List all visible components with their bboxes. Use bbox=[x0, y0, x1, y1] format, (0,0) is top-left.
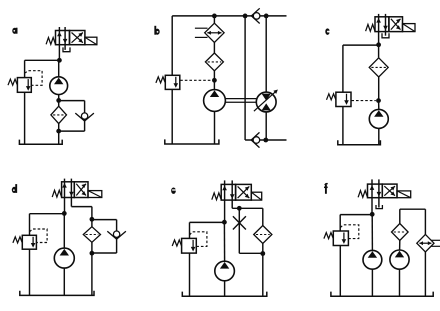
wire a: relief to tank bbox=[24, 92, 26, 144]
label e bbox=[171, 188, 176, 194]
wire b: relief to tank bbox=[171, 89, 173, 144]
node c: pilot junction bbox=[376, 98, 381, 103]
node a: filter outlet junction bbox=[56, 129, 61, 134]
wire a: pump to filter junction bbox=[58, 95, 60, 101]
valve f: crossed arrows bbox=[384, 186, 395, 196]
wire f: relief to tank bbox=[339, 246, 341, 297]
valve a: B-T flow line with down arrow bbox=[64, 27, 66, 45]
wire a: to tank bbox=[58, 131, 60, 144]
relief valve f: spring bbox=[324, 233, 333, 239]
node d: filter inlet junction bbox=[90, 217, 95, 222]
valve c: solenoid actuator bbox=[403, 24, 416, 32]
node b: rail check right bbox=[264, 14, 269, 19]
valve c: B-T flow line with down arrow bbox=[385, 14, 387, 32]
label d bbox=[12, 187, 17, 193]
tank reservoir d bbox=[20, 291, 94, 296]
wire c: filter to pilot junction bbox=[378, 77, 380, 101]
node b: pilot junction bbox=[212, 78, 217, 83]
wire e: junction to pump bbox=[223, 222, 225, 261]
valve f: left position square (parallel flow paths) bbox=[368, 184, 383, 198]
check valve d: seat bbox=[107, 231, 126, 239]
relief valve a: pilot line (dashed) bbox=[25, 71, 42, 86]
relief valve c: pilot line (dashed) bbox=[351, 100, 375, 102]
valve f: B-T flow line with down arrow bbox=[378, 179, 380, 197]
cooler f: heat-flow arrow bbox=[419, 242, 431, 244]
valve a: left position square (parallel flow paths) bbox=[56, 31, 70, 45]
check valve b bottom: ball bbox=[253, 137, 260, 144]
cooler b: diamond bbox=[205, 23, 224, 42]
pump d: outlet triangle bbox=[60, 249, 69, 256]
valve e: B-T flow line with down arrow bbox=[231, 180, 233, 200]
wire e: junction to relief branch bbox=[190, 221, 225, 223]
relief valve b: pilot line (dashed) bbox=[180, 79, 212, 81]
wire d: return port to filter bbox=[70, 198, 72, 207]
valve c: P-A flow line with up arrow bbox=[378, 14, 380, 32]
valve a: tank port stub bbox=[64, 45, 66, 50]
pump c: outlet triangle bbox=[374, 110, 383, 117]
motor b: upper triangle bbox=[262, 94, 271, 101]
wire b: filter to pilot junction bbox=[213, 71, 215, 81]
filter b: dashed element bbox=[208, 61, 222, 63]
relief valve d: body square bbox=[22, 235, 36, 249]
pump b: circle bbox=[204, 90, 226, 112]
valve c: drain reservoir bracket bbox=[382, 33, 389, 38]
wire a: valve to junction bbox=[58, 45, 60, 61]
valve d: return spring bbox=[52, 190, 61, 197]
filter c: diamond bbox=[369, 58, 388, 77]
wire b: supply rail bbox=[172, 15, 286, 17]
tank reservoir b bbox=[165, 139, 219, 144]
relief valve c: body square bbox=[336, 92, 351, 106]
valve f: solenoid actuator bbox=[397, 191, 411, 198]
valve d: solenoid actuator bbox=[88, 191, 102, 198]
valve a: P-A flow line with up arrow bbox=[58, 27, 60, 45]
valve a: crossed arrows bbox=[72, 33, 83, 43]
relief valve b: spring bbox=[156, 77, 165, 83]
pump f1: outlet triangle bbox=[368, 251, 377, 258]
wire d: junction to relief branch bbox=[30, 213, 65, 215]
relief valve f: pilot line (dashed) bbox=[340, 225, 359, 239]
pump a: circle bbox=[50, 77, 68, 95]
node c: supply junction bbox=[376, 42, 381, 47]
wire e: plugged stub bbox=[238, 208, 240, 253]
wire e: P port to junction bbox=[224, 200, 226, 222]
tank reservoir f bbox=[331, 292, 433, 297]
wire d: relief to tank bbox=[29, 249, 31, 295]
wire f: cooler to tank bbox=[424, 252, 426, 296]
check valve b bottom: seat bbox=[251, 132, 259, 147]
valve e: solenoid actuator bbox=[251, 192, 261, 200]
node e: pump junction bbox=[222, 220, 227, 225]
node b: cooler junction bbox=[212, 14, 217, 19]
relief valve c: spring bbox=[327, 94, 336, 100]
node b: lower rail junction bbox=[263, 138, 268, 143]
wire e: to filter bbox=[262, 208, 264, 225]
wire e: to tank bbox=[262, 254, 264, 297]
pump c: circle bbox=[369, 109, 388, 128]
relief valve c: internal flow arrow bbox=[346, 94, 348, 102]
node a: pressure junction bbox=[57, 58, 62, 63]
valve d: crossed arrows bbox=[76, 184, 86, 196]
wire d: to filter bbox=[91, 219, 93, 227]
wire a: junction to pump bbox=[58, 60, 60, 77]
wire c: junction to relief branch bbox=[343, 44, 379, 46]
node d: filter outlet junction bbox=[90, 251, 95, 256]
filter e: dashed element bbox=[256, 234, 270, 236]
wire f: P port to junction bbox=[371, 198, 373, 215]
wire a: bypass lower bbox=[84, 119, 86, 131]
valve c: left position square (parallel flow paths) bbox=[375, 17, 389, 32]
check valve a: ball bbox=[81, 113, 87, 119]
valve f: right position square (crossed flow paths) bbox=[382, 184, 397, 198]
valve e: right position square (crossed flow paths) bbox=[236, 184, 252, 200]
filter a: diamond bbox=[51, 106, 67, 123]
wire a: to filter bbox=[58, 100, 60, 106]
check valve b top: seat bbox=[251, 8, 259, 23]
relief valve a: internal flow arrow bbox=[27, 79, 29, 87]
filter d: dashed element bbox=[86, 234, 99, 236]
pump e: outlet triangle bbox=[220, 262, 229, 269]
relief valve e: internal flow arrow bbox=[192, 240, 194, 248]
wire d: P port to junction bbox=[64, 198, 66, 214]
wire f: junction to pump 1 bbox=[371, 214, 373, 250]
filter a: dashed element bbox=[53, 114, 64, 116]
valve d: right position square (crossed flow paths) bbox=[74, 182, 88, 198]
valve f: tank port stub bbox=[378, 198, 380, 208]
wire e: return port jog bbox=[231, 200, 233, 208]
valve e: P-A flow line with up arrow bbox=[224, 180, 226, 200]
wire a: junction to relief branch bbox=[25, 59, 60, 61]
check valve a: seat bbox=[75, 113, 94, 121]
wire b: bypass leg bbox=[244, 16, 246, 140]
wire d: bypass lower bbox=[116, 237, 118, 253]
relief valve f: body square bbox=[333, 231, 348, 246]
relief valve a: body square bbox=[17, 78, 31, 93]
wire d: junction to pump bbox=[63, 213, 65, 248]
valve a: solenoid actuator bbox=[85, 37, 97, 45]
wire d: pump to tank bbox=[63, 268, 65, 295]
relief valve b: body square bbox=[165, 75, 180, 89]
pump b: outlet triangle bbox=[210, 90, 219, 97]
pump a: outlet triangle bbox=[54, 78, 63, 85]
motor b: variable displacement motor bbox=[256, 92, 276, 112]
wire b: cooler to filter bbox=[213, 42, 215, 53]
check valve d: ball bbox=[113, 231, 119, 237]
cooler f: diamond bbox=[417, 234, 434, 252]
cooler f: coolant lines bbox=[431, 239, 440, 241]
relief valve b: internal flow arrow bbox=[175, 77, 177, 84]
tank reservoir c bbox=[338, 140, 381, 145]
wire b: rail to cooler bbox=[213, 16, 215, 23]
node b: rail check left bbox=[243, 14, 248, 19]
plugged line e: X symbol bbox=[233, 216, 246, 229]
label c bbox=[325, 28, 329, 34]
relief valve f: internal flow arrow bbox=[343, 233, 345, 241]
relief valve e: body square bbox=[182, 238, 197, 253]
drive shaft b: coupling lines bbox=[225, 98, 256, 100]
filter b: diamond bbox=[205, 53, 223, 71]
wire a: filter to outlet junction bbox=[58, 124, 60, 131]
filter e: diamond bbox=[254, 226, 272, 244]
label f bbox=[325, 185, 327, 194]
wire b: junction to pump bbox=[213, 80, 215, 89]
valve a: right position square (crossed flow paths) bbox=[70, 31, 85, 45]
wire b: pump to tank bbox=[214, 111, 216, 144]
relief valve d: pilot line (dashed) bbox=[30, 229, 48, 243]
wire f: filter to pump 2 bbox=[399, 241, 401, 251]
valve d: B-T flow line with down arrow bbox=[70, 179, 72, 198]
valve e: return spring bbox=[212, 193, 221, 200]
filter f: diamond bbox=[392, 224, 409, 241]
valve c: return spring bbox=[366, 24, 375, 31]
wire c: relief to tank bbox=[342, 107, 344, 145]
motor b: lower triangle bbox=[262, 103, 271, 110]
motor b: variable arrow bbox=[254, 91, 277, 111]
valve c: crossed arrows bbox=[391, 19, 401, 30]
label b bbox=[154, 26, 156, 35]
relief valve d: internal flow arrow bbox=[32, 237, 34, 244]
label a bbox=[12, 28, 17, 34]
wire b: left return line upper bbox=[171, 16, 173, 75]
valve a: return spring bbox=[46, 38, 55, 45]
wire c: pump to tank bbox=[378, 128, 380, 144]
valve f: P-A flow line with up arrow bbox=[371, 179, 373, 197]
filter d: diamond bbox=[83, 227, 100, 243]
valve d: P-A flow line with up arrow bbox=[64, 179, 66, 198]
valve d: left position square (parallel flow paths) bbox=[62, 182, 75, 198]
node a: filter inlet junction bbox=[56, 98, 61, 103]
wire e: filter to junction bbox=[262, 244, 264, 254]
valve f: drain reservoir bracket bbox=[376, 205, 382, 209]
relief valve e: pilot line (dashed) bbox=[190, 232, 207, 247]
valve c: tank port stub bbox=[385, 32, 387, 36]
pump d: circle bbox=[54, 248, 74, 268]
wire d: bypass upper bbox=[92, 219, 117, 221]
tank reservoir e bbox=[182, 292, 266, 297]
filter c: dashed element bbox=[371, 66, 386, 68]
wire b: motor leg bbox=[265, 16, 267, 140]
wire d: filter to outlet junction bbox=[91, 242, 93, 253]
wire e: pump to tank bbox=[224, 281, 226, 296]
wire f: pump 2 to tank bbox=[399, 269, 401, 296]
node e: plug junction bbox=[237, 206, 242, 211]
wire c: junction to pump bbox=[378, 101, 380, 110]
node f: pump junction bbox=[370, 212, 375, 217]
wire d: to tank bbox=[91, 253, 93, 295]
filter f: dashed element bbox=[394, 231, 406, 233]
wire f: filter riser and rail bbox=[399, 209, 401, 223]
wire b: lower rail bbox=[245, 139, 286, 141]
pump f2: outlet triangle bbox=[395, 251, 404, 258]
wire f: junction to relief branch bbox=[340, 214, 372, 216]
wire a: bypass upper bbox=[59, 100, 85, 102]
check valve b top: ball bbox=[253, 13, 260, 20]
pump e: circle bbox=[215, 261, 235, 281]
valve a: drain reservoir bracket bbox=[63, 47, 70, 51]
pump f2: circle bbox=[390, 250, 409, 269]
cooler b: coolant lines bbox=[195, 27, 208, 29]
node e: filter outlet junction bbox=[260, 251, 265, 256]
tank reservoir a bbox=[19, 140, 62, 145]
valve e: left position square (parallel flow paths) bbox=[221, 184, 235, 200]
relief valve e: spring bbox=[172, 240, 181, 246]
pump f1: circle bbox=[363, 250, 382, 269]
wire f: pump 1 to tank bbox=[371, 269, 373, 296]
wire c: junction to filter bbox=[378, 45, 380, 58]
cooler b: heat-flow arrow bbox=[207, 32, 221, 34]
valve e: crossed arrows bbox=[238, 186, 250, 198]
valve c: right position square (crossed flow paths) bbox=[389, 17, 403, 32]
wire e: relief to tank bbox=[189, 253, 191, 296]
wire c: valve to junction bbox=[378, 32, 380, 45]
relief valve d: spring bbox=[13, 237, 22, 243]
valve f: return spring bbox=[358, 191, 367, 198]
relief valve a: spring bbox=[8, 79, 17, 85]
node d: pump junction bbox=[62, 211, 67, 216]
